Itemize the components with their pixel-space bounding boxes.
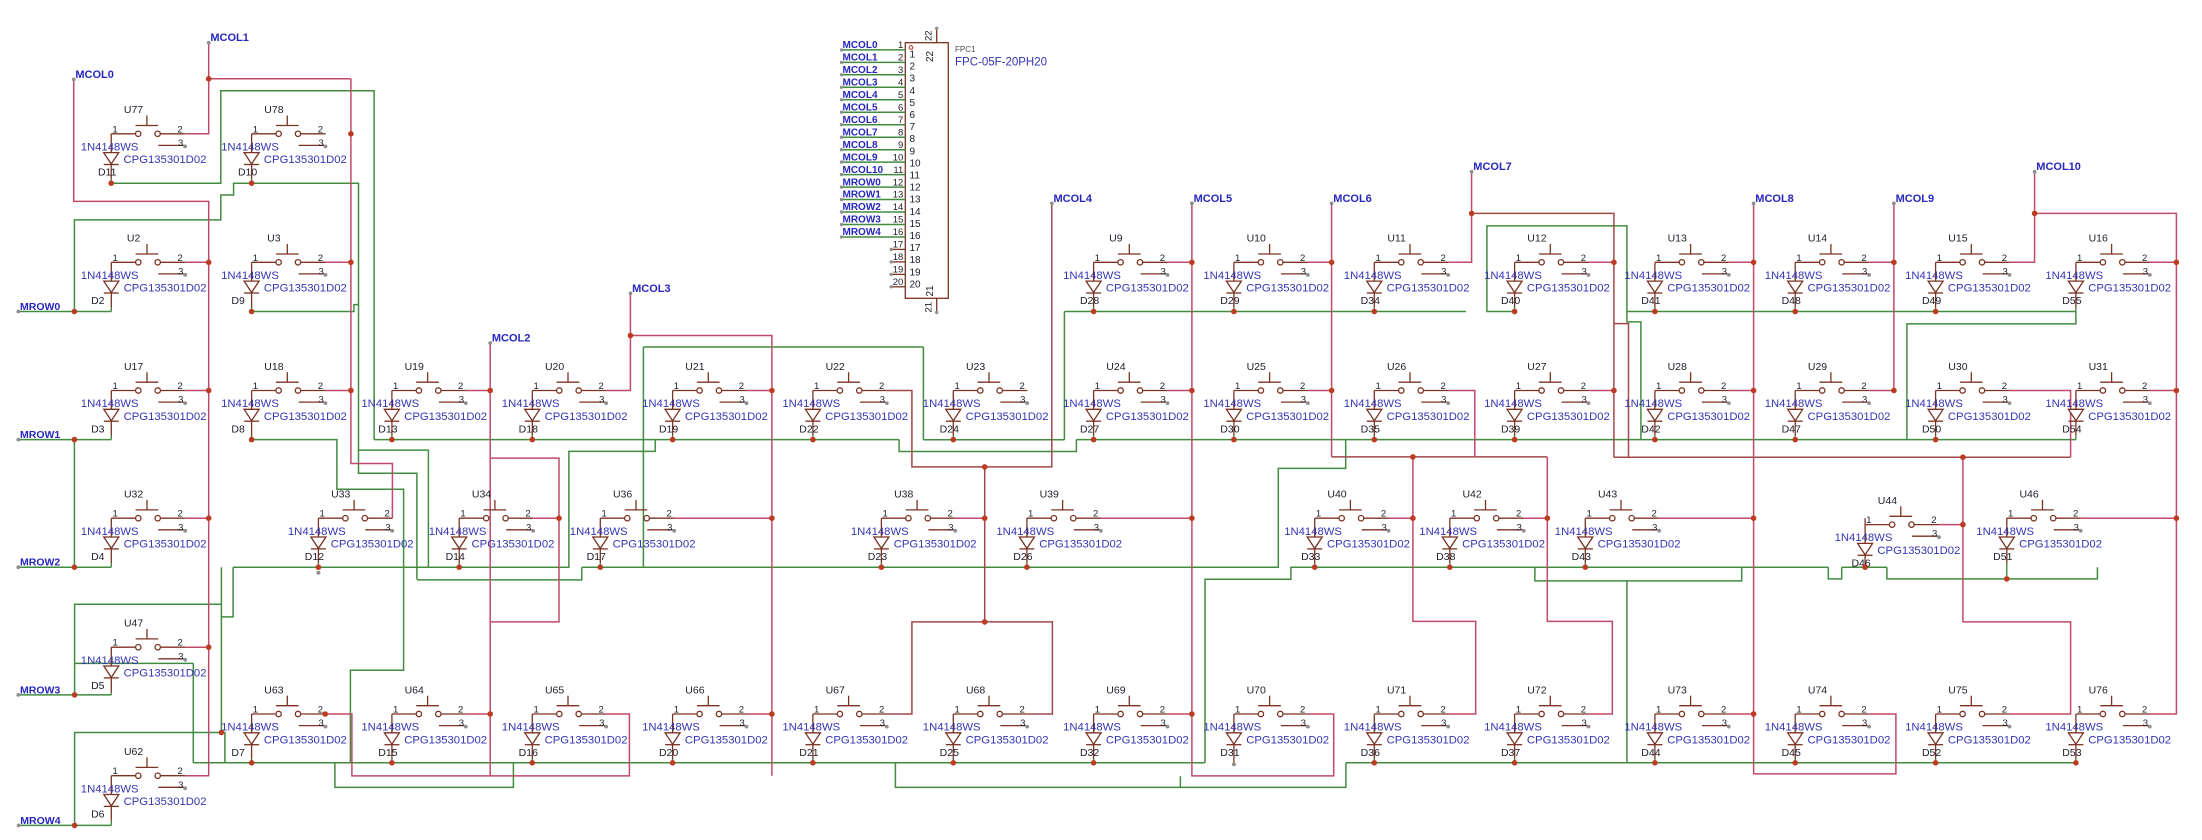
svg-text:CPG135301D02: CPG135301D02 [264, 411, 347, 423]
svg-text:CPG135301D02: CPG135301D02 [1106, 411, 1189, 423]
junction at D9 cathode [249, 309, 255, 315]
net label MROW2 [16, 557, 60, 570]
diode D34 1N4148WS [1344, 262, 1470, 311]
wire 663 spur [75, 662, 194, 664]
svg-text:2: 2 [1861, 381, 1866, 392]
svg-text:D7: D7 [231, 747, 245, 759]
svg-text:CPG135301D02: CPG135301D02 [264, 283, 347, 295]
svg-text:15: 15 [910, 219, 922, 230]
FPC1 pin 5 wire + net label MCOL4 [842, 99, 906, 101]
switch U10 [1234, 233, 1310, 278]
switch U66 [673, 684, 749, 729]
svg-text:1N4148WS: 1N4148WS [1344, 270, 1402, 282]
switch U28 [1655, 361, 1731, 406]
svg-text:13: 13 [910, 195, 922, 206]
diode D19 1N4148WS [642, 391, 768, 440]
junction at U31 pin2 [2174, 388, 2180, 394]
svg-text:CPG135301D02: CPG135301D02 [124, 411, 207, 423]
junction at U34 pin2 [556, 515, 562, 521]
diode D3 1N4148WS [81, 391, 207, 440]
svg-text:1: 1 [814, 705, 819, 716]
switch U44 [1865, 495, 1941, 540]
wire MCOL10 branch east [2035, 213, 2177, 714]
svg-text:2: 2 [1721, 705, 1726, 716]
wire U2 pin2 link [185, 261, 208, 263]
svg-text:3: 3 [910, 74, 916, 85]
wire MROW0 label run [18, 311, 111, 313]
svg-text:3: 3 [667, 522, 672, 533]
switch U25 [1234, 361, 1310, 406]
svg-text:CPG135301D02: CPG135301D02 [545, 411, 628, 423]
svg-text:D18: D18 [519, 423, 538, 435]
wire U47 pin2 link [185, 646, 208, 648]
svg-text:D55: D55 [2062, 295, 2081, 307]
junction at D20 cathode [670, 760, 676, 766]
svg-text:D2: D2 [91, 295, 105, 307]
svg-text:D38: D38 [1436, 551, 1455, 563]
svg-text:FPC1: FPC1 [955, 45, 976, 54]
svg-text:16: 16 [910, 231, 922, 242]
svg-text:MROW3: MROW3 [20, 684, 60, 696]
junction at D51 cathode [2004, 576, 2010, 582]
svg-text:1: 1 [2077, 253, 2082, 264]
wire D9 hook to 358 vertical [252, 305, 359, 312]
svg-text:2: 2 [879, 705, 884, 716]
svg-text:D44: D44 [1641, 747, 1660, 759]
svg-text:3: 3 [1581, 266, 1586, 277]
svg-text:MCOL10: MCOL10 [2036, 161, 2081, 173]
svg-text:1: 1 [1937, 253, 1942, 264]
svg-text:1: 1 [883, 509, 888, 520]
wire MCOL1 to U77 pin2 [185, 43, 208, 134]
svg-text:U39: U39 [1040, 489, 1059, 501]
junction at D53 cathode [2073, 760, 2079, 766]
svg-text:CPG135301D02: CPG135301D02 [404, 734, 487, 746]
svg-text:1: 1 [112, 381, 117, 392]
svg-text:2: 2 [1300, 705, 1305, 716]
wire U26 pin2 drop [1448, 391, 1475, 457]
svg-text:U62: U62 [124, 746, 143, 758]
wire MCOL3 branch east [630, 336, 772, 776]
svg-text:2: 2 [739, 705, 744, 716]
junction at U43 pin2 [1751, 515, 1757, 521]
switch U36 [600, 489, 676, 534]
diode D4 1N4148WS [81, 518, 207, 567]
net label MCOL5 [1190, 193, 1232, 206]
wire MROW2 small jog [1828, 567, 1841, 579]
svg-text:CPG135301D02: CPG135301D02 [124, 539, 207, 551]
svg-text:12: 12 [910, 183, 922, 194]
svg-text:3: 3 [1722, 718, 1727, 729]
junction at D34 cathode [1372, 309, 1378, 315]
svg-text:CPG135301D02: CPG135301D02 [685, 411, 768, 423]
svg-text:13: 13 [893, 190, 904, 201]
svg-text:U26: U26 [1387, 361, 1406, 373]
svg-text:2: 2 [177, 381, 182, 392]
svg-text:MCOL9: MCOL9 [1896, 193, 1935, 205]
svg-text:CPG135301D02: CPG135301D02 [2088, 734, 2171, 746]
svg-text:3: 3 [1722, 266, 1727, 277]
svg-text:MROW2: MROW2 [843, 202, 882, 213]
switch U16 [2076, 233, 2152, 278]
svg-text:CPG135301D02: CPG135301D02 [124, 796, 207, 808]
switch U22 [813, 361, 889, 406]
junction at U28 pin2 [1751, 388, 1757, 394]
svg-text:1N4148WS: 1N4148WS [1063, 270, 1121, 282]
svg-text:2: 2 [598, 381, 603, 392]
wire U40 pin2 link [1389, 517, 1413, 519]
junction at U25 pin2 [1329, 388, 1335, 394]
svg-text:1: 1 [1235, 253, 1240, 264]
FPC1 pin 8 wire + net label MCOL7 [842, 136, 906, 138]
svg-text:U3: U3 [267, 233, 281, 245]
svg-text:1: 1 [1375, 381, 1380, 392]
svg-text:3: 3 [739, 395, 744, 406]
wire U64 pin2 link [466, 713, 490, 715]
svg-text:8: 8 [910, 134, 916, 145]
svg-text:1N4148WS: 1N4148WS [1484, 398, 1542, 410]
wire 221 vertical [220, 567, 222, 732]
svg-text:7: 7 [910, 122, 916, 133]
svg-text:U40: U40 [1327, 489, 1346, 501]
svg-text:U23: U23 [966, 361, 985, 373]
junction at U12 pin2 [1611, 260, 1617, 266]
svg-text:D42: D42 [1641, 423, 1660, 435]
junction at D30 cathode [1231, 437, 1237, 443]
svg-text:U78: U78 [264, 104, 283, 116]
junction at U21 pin2 [769, 388, 775, 394]
diode D35 1N4148WS [1344, 391, 1470, 440]
junction at D46 cathode [1862, 564, 1868, 570]
svg-text:1N4148WS: 1N4148WS [1203, 270, 1261, 282]
wire U27 pin2 link [1589, 390, 1614, 392]
svg-text:15: 15 [893, 215, 904, 226]
svg-text:1: 1 [393, 705, 398, 716]
wire U14 pin2 link [1869, 261, 1894, 263]
junction at U73 pin2 [1751, 711, 1757, 717]
wire drop to U44/U75 [1963, 457, 2071, 714]
svg-text:MCOL5: MCOL5 [843, 103, 878, 114]
svg-text:D48: D48 [1782, 295, 1801, 307]
wire row F 787 branch west [335, 763, 514, 788]
switch U42 [1450, 489, 1526, 534]
diode D8 1N4148WS [221, 391, 347, 440]
switch U13 [1655, 233, 1731, 278]
svg-text:MCOL2: MCOL2 [843, 65, 878, 76]
svg-text:12: 12 [893, 177, 904, 188]
svg-text:1: 1 [1235, 381, 1240, 392]
svg-text:D37: D37 [1501, 747, 1520, 759]
svg-text:2: 2 [910, 62, 916, 73]
svg-text:D14: D14 [446, 551, 465, 563]
diode D10 1N4148WS [221, 134, 347, 183]
switch U63 [252, 684, 328, 729]
svg-text:1: 1 [253, 705, 258, 716]
svg-text:U36: U36 [613, 489, 632, 501]
diode D11 1N4148WS [81, 134, 207, 183]
svg-text:2: 2 [898, 53, 903, 64]
svg-text:CPG135301D02: CPG135301D02 [1877, 545, 1960, 557]
FPC1 pin 20 stub [892, 286, 905, 288]
svg-text:1N4148WS: 1N4148WS [851, 526, 909, 538]
switch U40 [1315, 489, 1391, 534]
switch U2 [111, 233, 187, 278]
wire MCOL5 vertical [1192, 203, 1334, 776]
svg-text:U13: U13 [1668, 233, 1687, 245]
svg-text:1N4148WS: 1N4148WS [1765, 270, 1823, 282]
svg-text:1: 1 [674, 381, 679, 392]
svg-text:U65: U65 [545, 684, 564, 696]
svg-text:U10: U10 [1247, 233, 1266, 245]
svg-text:D12: D12 [305, 551, 324, 563]
net label MCOL7 [1470, 161, 1512, 174]
svg-text:U21: U21 [685, 361, 704, 373]
junction at D35 cathode [1372, 437, 1378, 443]
svg-text:CPG135301D02: CPG135301D02 [1246, 734, 1329, 746]
svg-text:2: 2 [1019, 381, 1024, 392]
svg-text:U68: U68 [966, 684, 985, 696]
svg-text:3: 3 [739, 718, 744, 729]
wire MCOL0 [74, 79, 209, 775]
svg-text:3: 3 [1441, 395, 1446, 406]
svg-text:CPG135301D02: CPG135301D02 [2019, 539, 2102, 551]
wire U39 pin2 link [1101, 517, 1192, 519]
svg-text:2: 2 [598, 705, 603, 716]
svg-text:2: 2 [1093, 509, 1098, 520]
FPC1 pin 11 wire + net label MCOL10 [842, 174, 906, 176]
svg-text:3: 3 [898, 65, 903, 76]
diode D30 1N4148WS [1203, 391, 1329, 440]
svg-text:1N4148WS: 1N4148WS [81, 270, 139, 282]
diode D5 1N4148WS [81, 647, 207, 695]
wire D28 riser [1063, 312, 1065, 440]
gray stub below D12 [316, 571, 320, 575]
diode D48 1N4148WS [1765, 262, 1891, 311]
switch U19 [392, 361, 468, 406]
svg-text:D24: D24 [940, 423, 959, 435]
svg-text:U70: U70 [1247, 684, 1266, 696]
svg-text:3: 3 [948, 522, 953, 533]
svg-text:2: 2 [1160, 705, 1165, 716]
svg-text:2: 2 [177, 766, 182, 777]
junction at U13 pin2 [1751, 260, 1757, 266]
wire D33 section with row F drop [1205, 567, 1828, 763]
svg-text:U32: U32 [124, 489, 143, 501]
wire U24 pin2 link [1168, 390, 1192, 392]
svg-text:D8: D8 [231, 423, 245, 435]
svg-text:D23: D23 [868, 551, 887, 563]
svg-text:U71: U71 [1387, 684, 1406, 696]
net label MCOL1 [207, 32, 249, 44]
svg-text:1N4148WS: 1N4148WS [1344, 722, 1402, 734]
switch U73 [1655, 684, 1731, 729]
svg-text:MCOL6: MCOL6 [843, 115, 878, 126]
svg-text:D49: D49 [1922, 295, 1941, 307]
diode D6 1N4148WS [81, 776, 207, 826]
svg-text:D20: D20 [659, 747, 678, 759]
svg-text:D5: D5 [91, 680, 105, 692]
net label MCOL3 [629, 283, 671, 296]
FPC1 pin1 indicator [909, 46, 913, 50]
svg-text:MROW2: MROW2 [20, 557, 60, 569]
switch U76 [2076, 684, 2152, 729]
svg-text:2: 2 [2073, 509, 2078, 520]
svg-text:1: 1 [601, 509, 606, 520]
wire MCOL9 vertical [1893, 203, 1895, 390]
svg-text:1N4148WS: 1N4148WS [1765, 398, 1823, 410]
svg-text:2: 2 [385, 509, 390, 520]
wire MROW3 label run [18, 694, 111, 696]
svg-text:3: 3 [318, 718, 323, 729]
svg-text:1N4148WS: 1N4148WS [1203, 398, 1261, 410]
svg-text:D11: D11 [98, 167, 117, 179]
svg-text:1N4148WS: 1N4148WS [1284, 526, 1342, 538]
svg-text:1N4148WS: 1N4148WS [1419, 526, 1477, 538]
wire 457 channel east [1614, 456, 2071, 458]
wire 663 riser to row F [192, 663, 194, 762]
diode D46 1N4148WS [1835, 525, 1961, 570]
switch U9 [1094, 233, 1170, 278]
svg-text:2: 2 [2142, 705, 2147, 716]
switch U21 [673, 361, 749, 406]
svg-text:D32: D32 [1080, 747, 1099, 759]
diode D23 1N4148WS [851, 518, 977, 567]
net label MCOL2 [488, 332, 530, 345]
svg-text:CPG135301D02: CPG135301D02 [2088, 283, 2171, 295]
svg-text:2: 2 [1721, 381, 1726, 392]
svg-text:14: 14 [893, 202, 904, 213]
svg-text:U47: U47 [124, 618, 143, 630]
svg-text:9: 9 [898, 140, 903, 151]
switch U18 [252, 361, 328, 406]
junction at D42 cathode [1652, 437, 1658, 443]
diode D52 1N4148WS [1905, 714, 2031, 763]
svg-text:D53: D53 [2062, 747, 2081, 759]
svg-text:14: 14 [910, 207, 922, 218]
switch U39 [1027, 489, 1103, 534]
svg-text:MROW1: MROW1 [20, 429, 60, 441]
wire U16 pin2 link [2150, 261, 2177, 263]
switch U65 [532, 684, 608, 729]
wire U38 pin2 link [955, 517, 984, 519]
svg-text:21: 21 [924, 302, 935, 313]
svg-text:2: 2 [2142, 381, 2147, 392]
junction at U66 pin2 [769, 711, 775, 717]
svg-text:U34: U34 [472, 489, 491, 501]
svg-text:2: 2 [879, 381, 884, 392]
wire D41 run east [1627, 311, 2076, 313]
svg-text:D52: D52 [1922, 747, 1941, 759]
wire MROW1-MROW2 left tie [73, 440, 75, 568]
wire D55 branch [1907, 312, 2076, 440]
svg-text:3: 3 [1722, 395, 1727, 406]
svg-text:3: 3 [1581, 395, 1586, 406]
svg-text:1N4148WS: 1N4148WS [1624, 722, 1682, 734]
svg-text:1: 1 [320, 509, 325, 520]
junction at D16 cathode [530, 760, 536, 766]
switch U31 [2076, 361, 2152, 406]
switch U27 [1515, 361, 1591, 406]
wire U44 pin2 link [1939, 524, 1963, 526]
svg-text:1: 1 [910, 50, 916, 61]
svg-text:1: 1 [112, 124, 117, 135]
junction at U3 pin2 [348, 260, 354, 266]
svg-text:2: 2 [177, 638, 182, 649]
svg-text:CPG135301D02: CPG135301D02 [1598, 539, 1681, 551]
svg-text:1: 1 [1796, 253, 1801, 264]
wire U67-U68 bridge [887, 622, 1053, 714]
switch U68 [953, 684, 1029, 729]
svg-text:D31: D31 [1220, 747, 1239, 759]
svg-text:CPG135301D02: CPG135301D02 [1667, 411, 1750, 423]
wire U63-U65 bridge [326, 714, 630, 776]
svg-text:CPG135301D02: CPG135301D02 [1948, 283, 2031, 295]
svg-text:MROW4: MROW4 [20, 815, 60, 827]
diode D21 1N4148WS [782, 714, 908, 763]
diode D20 1N4148WS [642, 714, 768, 763]
svg-text:CPG135301D02: CPG135301D02 [966, 734, 1049, 746]
junction at D38 cathode [1447, 564, 1453, 570]
svg-text:U33: U33 [331, 489, 350, 501]
svg-text:3: 3 [1160, 718, 1165, 729]
wire MROW2 west section [233, 440, 655, 568]
wire U42 pin2 link [1524, 517, 1548, 519]
svg-text:U75: U75 [1948, 684, 1967, 696]
svg-text:1N4148WS: 1N4148WS [221, 722, 279, 734]
svg-text:4: 4 [898, 78, 903, 89]
wire MCOL6 drop to U40/U71 [1413, 457, 1476, 714]
junction at D44 cathode [1652, 760, 1658, 766]
svg-text:1: 1 [1866, 515, 1871, 526]
svg-text:1: 1 [1937, 381, 1942, 392]
FPC1 pin 18 stub [892, 261, 905, 263]
svg-text:MCOL2: MCOL2 [492, 332, 531, 344]
wire U3 pin2 link [326, 261, 351, 263]
svg-text:1N4148WS: 1N4148WS [923, 722, 981, 734]
svg-text:D45: D45 [1782, 747, 1801, 759]
svg-text:1: 1 [954, 381, 959, 392]
junction at D29 cathode [1231, 309, 1237, 315]
svg-text:U63: U63 [264, 684, 283, 696]
FPC1 pin 19 stub [892, 273, 905, 275]
svg-text:2: 2 [177, 509, 182, 520]
diode D36 1N4148WS [1344, 714, 1470, 763]
svg-text:1N4148WS: 1N4148WS [1203, 722, 1261, 734]
svg-text:3: 3 [1301, 266, 1306, 277]
junction at D50 cathode [1933, 437, 1939, 443]
junction at D27 cathode [1091, 437, 1097, 443]
junction at U16 pin2 [2174, 260, 2180, 266]
svg-text:2: 2 [1160, 253, 1165, 264]
junction at D22 cathode [810, 437, 816, 443]
diode D39 1N4148WS [1484, 391, 1610, 440]
svg-text:CPG135301D02: CPG135301D02 [1246, 283, 1329, 295]
switch U77 [111, 104, 187, 149]
junction at D49 cathode [1933, 309, 1939, 315]
switch U24 [1094, 361, 1170, 406]
svg-text:U44: U44 [1878, 495, 1897, 507]
diode D27 1N4148WS [1063, 391, 1189, 440]
svg-text:1: 1 [1375, 253, 1380, 264]
FPC1 pin 13 wire + net label MROW1 [842, 199, 906, 201]
svg-text:1: 1 [1375, 705, 1380, 716]
svg-text:1: 1 [1796, 381, 1801, 392]
svg-text:19: 19 [910, 267, 922, 278]
switch U33 [318, 489, 394, 534]
switch U26 [1374, 361, 1450, 406]
FPC1 pin 3 wire + net label MCOL2 [842, 74, 906, 76]
svg-text:U27: U27 [1527, 361, 1546, 373]
